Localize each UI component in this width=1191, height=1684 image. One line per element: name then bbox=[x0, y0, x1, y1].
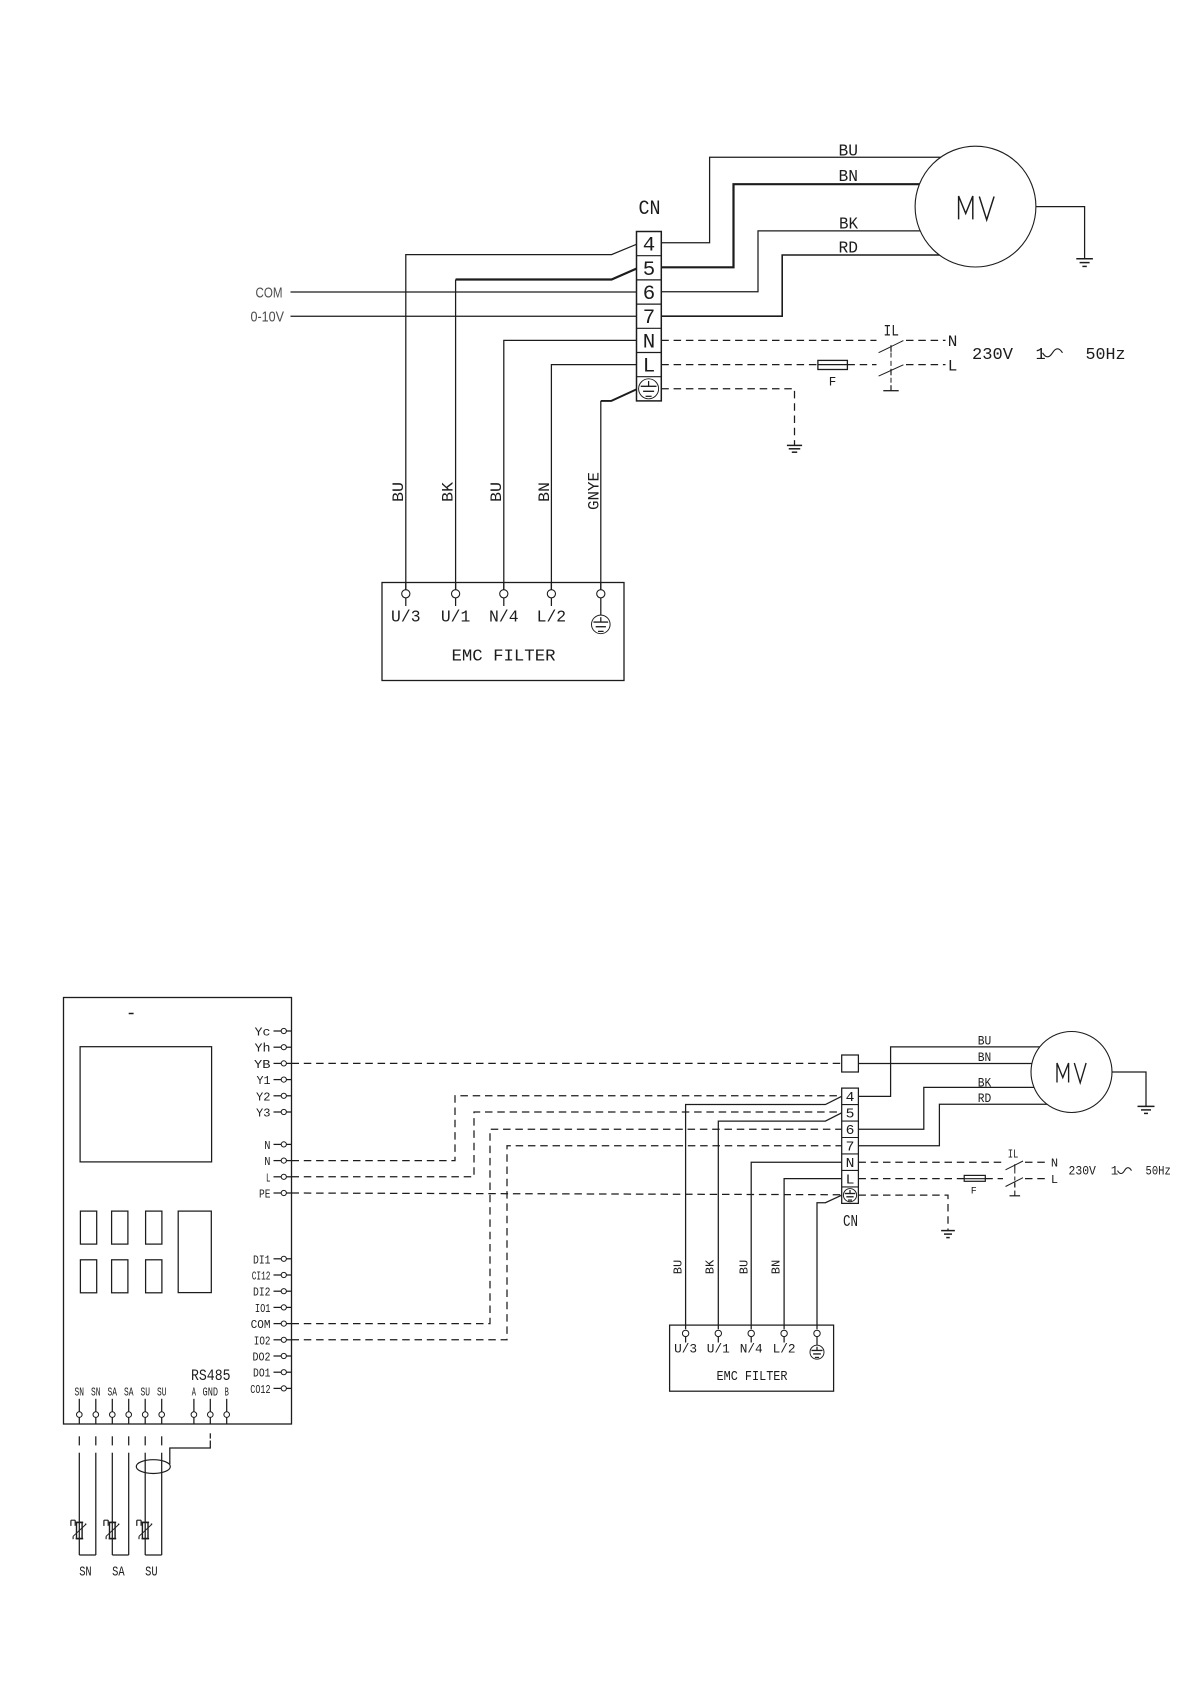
controller terminal CO12 stub+circle bbox=[274, 1386, 292, 1391]
svg-text:BU: BU bbox=[839, 143, 859, 162]
label IL (bottom) bbox=[1008, 1148, 1019, 1162]
svg-text:IL: IL bbox=[1008, 1148, 1019, 1162]
svg-text:BN: BN bbox=[770, 1260, 784, 1275]
controller terminal DO2 stub+circle bbox=[274, 1353, 292, 1358]
controller terminal Y1 label bbox=[257, 1074, 271, 1088]
svg-text:DO2: DO2 bbox=[253, 1351, 271, 1365]
connector CN (top) terminal block outline bbox=[637, 232, 662, 401]
controller terminal DO1 stub+circle bbox=[274, 1370, 292, 1375]
controller terminal YB stub+circle bbox=[274, 1061, 292, 1066]
pin 5 label (bottom CN) bbox=[846, 1107, 855, 1123]
controller terminal N label bbox=[264, 1155, 270, 1169]
svg-text:L: L bbox=[266, 1171, 271, 1185]
wire RS485 GND to cable shield bbox=[170, 1441, 211, 1465]
controller bottom terminal SN label bbox=[75, 1386, 85, 1400]
controller terminal CI12 label bbox=[252, 1270, 271, 1284]
controller button r2c3 bbox=[146, 1260, 162, 1293]
wire BN: CN pin 5 to motor (top) bbox=[661, 184, 930, 267]
controller button r1c1 bbox=[80, 1211, 96, 1244]
EMC terminal circle (top) bbox=[500, 590, 508, 598]
svg-text:230V: 230V bbox=[972, 346, 1014, 365]
wire: motor MV (top) to earth bbox=[1036, 207, 1085, 259]
connector CN (top) cell divider bbox=[637, 376, 662, 378]
EMC filter box (top) bbox=[382, 583, 624, 681]
controller terminal COM stub+circle bbox=[274, 1321, 292, 1326]
controller button r1c3 bbox=[146, 1211, 162, 1244]
connector CN (bottom) cell divider bbox=[842, 1137, 859, 1139]
wire PE dashed: CN to ground (bottom) bbox=[858, 1195, 948, 1230]
EMC terminal label U/3 (bottom) bbox=[674, 1342, 697, 1357]
controller terminal N stub+circle bbox=[274, 1142, 292, 1147]
svg-text:7: 7 bbox=[643, 307, 656, 330]
switch IL pole L blade (top) bbox=[879, 365, 904, 376]
svg-text:F: F bbox=[971, 1187, 977, 1198]
svg-text:DI2: DI2 bbox=[253, 1286, 271, 1300]
wire BK: CN pin 6 to motor (bottom) bbox=[858, 1087, 1050, 1129]
label F (top) bbox=[829, 376, 837, 390]
controller bottom terminal SU label bbox=[157, 1386, 167, 1400]
connector CN (top) cell divider bbox=[637, 279, 662, 281]
temperature sensor SU body bbox=[142, 1522, 150, 1538]
wire dashed YB to connector square bbox=[292, 1062, 842, 1064]
wire 0-10V to CN pin 7 (top) bbox=[291, 315, 637, 317]
wire BU: CN pin 4 to motor (top) bbox=[661, 157, 950, 242]
wire GNYE: EMC earth to CN PE (top) bbox=[601, 389, 637, 589]
svg-text:RS485: RS485 bbox=[191, 1367, 231, 1385]
svg-text:RD: RD bbox=[978, 1091, 992, 1106]
label BN (top) bbox=[839, 168, 859, 187]
svg-text:RD: RD bbox=[839, 240, 859, 259]
svg-text:DI1: DI1 bbox=[253, 1253, 271, 1267]
label IL (top) bbox=[884, 323, 900, 341]
controller button large bbox=[178, 1211, 211, 1293]
controller bottom terminal SA label bbox=[108, 1386, 118, 1400]
EMC terminal circle (bottom) bbox=[781, 1330, 787, 1336]
connector CN (bottom) cell divider bbox=[842, 1169, 859, 1171]
sensor SA right wire bbox=[128, 1453, 130, 1555]
EMC FILTER label (top) bbox=[452, 648, 556, 667]
switch IL pole L blade (bottom) bbox=[1006, 1178, 1024, 1187]
controller terminal DI2 label bbox=[253, 1286, 271, 1300]
svg-text:7: 7 bbox=[846, 1140, 855, 1156]
EMC terminal label U/3 (top) bbox=[391, 609, 421, 628]
sensor SA bottom join bbox=[112, 1554, 128, 1556]
wire BU: CN pin 4 to motor (bottom) bbox=[858, 1047, 1050, 1096]
svg-text:BN: BN bbox=[978, 1050, 992, 1065]
EMC terminal stub below U/3 (top) bbox=[405, 598, 407, 606]
label GNYE vertical (top) bbox=[586, 472, 604, 510]
connector CN (top) cell divider bbox=[637, 255, 662, 257]
svg-text:CN: CN bbox=[639, 198, 661, 221]
svg-text:Y1: Y1 bbox=[257, 1074, 271, 1088]
svg-text:L: L bbox=[643, 356, 656, 379]
connector CN (bottom) label bbox=[843, 1213, 858, 1232]
wire PE dashed: CN to ground (top) bbox=[661, 389, 794, 446]
wire RS485 GND dash bbox=[209, 1433, 211, 1438]
svg-text:N: N bbox=[1051, 1157, 1058, 1171]
label RD (bottom) bbox=[978, 1091, 992, 1106]
svg-text:BK: BK bbox=[978, 1075, 992, 1090]
EMC terminal stub below N/4 (top) bbox=[503, 598, 505, 606]
label 230V (bottom) bbox=[1069, 1165, 1097, 1179]
pin 7 label (bottom CN) bbox=[846, 1140, 855, 1156]
EMC earth stub (bottom) bbox=[816, 1337, 818, 1346]
label 50Hz (bottom) bbox=[1146, 1165, 1171, 1179]
svg-text:YB: YB bbox=[254, 1058, 271, 1072]
svg-text:BU: BU bbox=[390, 482, 408, 502]
temperature sensor SA theta mark bbox=[104, 1520, 108, 1526]
controller terminal CO12 label bbox=[250, 1383, 270, 1397]
sensor SA left wire bbox=[111, 1453, 113, 1555]
svg-text:N/4: N/4 bbox=[740, 1342, 763, 1357]
svg-text:6: 6 bbox=[846, 1123, 855, 1139]
cable shield ellipse around SU pair bbox=[136, 1460, 170, 1474]
EMC earth symbol (top) bbox=[592, 615, 611, 634]
label 0-10V (top) bbox=[251, 309, 285, 326]
svg-text:5: 5 bbox=[846, 1107, 855, 1123]
svg-text:N: N bbox=[948, 333, 958, 351]
label 50Hz (top) bbox=[1086, 346, 1126, 365]
switch IL pole L tick (bottom) bbox=[1014, 1182, 1016, 1187]
svg-text:A: A bbox=[192, 1386, 197, 1400]
sensor SN right wire bbox=[95, 1453, 97, 1555]
wire L dashed: switch to supply (top) bbox=[906, 364, 946, 366]
EMC terminal label U/1 (bottom) bbox=[707, 1342, 730, 1357]
controller bottom terminal stub+circle bbox=[126, 1399, 132, 1424]
svg-text:N: N bbox=[846, 1156, 855, 1172]
svg-text:BK: BK bbox=[440, 482, 458, 502]
label 1-phase (top) bbox=[1036, 346, 1063, 365]
svg-text:F: F bbox=[829, 376, 837, 390]
controller bottom terminal stub+circle bbox=[142, 1399, 148, 1424]
wire N dashed: switch to supply (top) bbox=[906, 339, 946, 341]
EMC FILTER label (bottom) bbox=[717, 1370, 788, 1385]
pin PE earth symbol (top CN) bbox=[639, 379, 659, 399]
svg-text:4: 4 bbox=[846, 1090, 855, 1106]
svg-text:SU: SU bbox=[140, 1386, 150, 1400]
pin 4 label (top CN) bbox=[643, 235, 656, 258]
ground symbol at motor MV (bottom) bbox=[1138, 1106, 1155, 1113]
pin 6 label (top CN) bbox=[643, 283, 656, 306]
svg-text:CN: CN bbox=[843, 1213, 858, 1232]
label L supply (bottom) bbox=[1051, 1173, 1058, 1187]
svg-text:U/1: U/1 bbox=[441, 609, 471, 628]
EMC terminal stub U/3 (bottom) bbox=[685, 1337, 687, 1343]
controller terminal DI1 label bbox=[253, 1253, 271, 1267]
svg-text:BU: BU bbox=[672, 1260, 686, 1275]
fuse F (top) bbox=[818, 360, 848, 369]
EMC terminal stub (top) bbox=[600, 583, 602, 590]
label BU vertical 2 (bottom) bbox=[738, 1260, 752, 1275]
svg-text:SU: SU bbox=[157, 1386, 167, 1400]
pin 6 label (bottom CN) bbox=[846, 1123, 855, 1139]
temperature sensor SU diagonal bbox=[139, 1524, 152, 1539]
motor MV (top) circle bbox=[915, 146, 1036, 267]
connector CN (top) label bbox=[639, 198, 661, 221]
controller terminal N label bbox=[264, 1139, 270, 1153]
controller terminal Yc label bbox=[255, 1026, 271, 1040]
svg-text:Yc: Yc bbox=[255, 1026, 271, 1040]
controller box bbox=[64, 998, 292, 1425]
svg-text:N: N bbox=[264, 1139, 270, 1153]
connector CN (top) cell divider bbox=[637, 327, 662, 329]
label BU vertical (bottom) bbox=[672, 1260, 686, 1275]
wire dashed COM to CN pin 6 (bottom) bbox=[292, 1129, 842, 1323]
sensor wire dash below controller bbox=[95, 1436, 97, 1445]
wire BN: EMC U/1 to CN pin 5 (top) bbox=[456, 269, 637, 590]
controller terminal DO2 label bbox=[253, 1351, 271, 1365]
label BU vertical (top) bbox=[390, 482, 408, 502]
svg-text:IO1: IO1 bbox=[255, 1302, 271, 1316]
switch IL pole N blade (top) bbox=[879, 341, 904, 353]
wire N dashed: CN to switch IL (bottom) bbox=[858, 1161, 1003, 1163]
controller terminal IO1 label bbox=[255, 1302, 271, 1316]
connector CN (bottom) cell divider bbox=[842, 1186, 859, 1188]
EMC terminal stub L/2 (bottom) bbox=[783, 1337, 785, 1343]
label sensor SN bbox=[79, 1565, 92, 1581]
wire dashed L to CN pin 5 (bottom) bbox=[292, 1112, 842, 1177]
ground symbol at motor MV (top) bbox=[1076, 259, 1093, 267]
wire L dashed: CN to fuse F (bottom) bbox=[858, 1178, 964, 1180]
svg-text:CO12: CO12 bbox=[250, 1383, 270, 1397]
svg-text:SU: SU bbox=[145, 1565, 158, 1581]
svg-text:Yh: Yh bbox=[255, 1042, 271, 1056]
svg-text:BU: BU bbox=[488, 482, 506, 502]
wire GNYE: EMC earth to CN PE (bottom) bbox=[817, 1195, 842, 1329]
svg-text:U/3: U/3 bbox=[391, 609, 421, 628]
wire BU: EMC U/3 to CN pin 4 (bottom) bbox=[686, 1096, 842, 1329]
wire dashed PE to CN earth (bottom) bbox=[292, 1193, 842, 1195]
switch IL linkage end bar (top) bbox=[883, 385, 898, 391]
wire BK: CN pin 6 to motor (top) bbox=[661, 231, 930, 292]
sensor wire dash below controller bbox=[161, 1436, 163, 1445]
label BN vertical (bottom) bbox=[770, 1260, 784, 1275]
controller terminal L label bbox=[266, 1171, 271, 1185]
label N supply (bottom) bbox=[1051, 1157, 1058, 1171]
svg-text:N: N bbox=[264, 1155, 270, 1169]
controller bottom terminal SN label bbox=[91, 1386, 101, 1400]
label L supply (top) bbox=[948, 357, 958, 375]
sensor wire dash below controller bbox=[128, 1436, 130, 1445]
controller bottom terminal stub+circle bbox=[110, 1399, 116, 1424]
controller display bbox=[80, 1047, 212, 1162]
controller bottom terminal SU label bbox=[140, 1386, 150, 1400]
temperature sensor SA body bbox=[109, 1522, 117, 1538]
controller bottom terminal stub+circle bbox=[159, 1399, 165, 1424]
svg-text:DO1: DO1 bbox=[253, 1367, 271, 1381]
EMC terminal circle (top) bbox=[452, 590, 460, 598]
EMC filter box (bottom) bbox=[670, 1325, 834, 1391]
EMC terminal stub below U/1 (top) bbox=[455, 598, 457, 606]
controller terminal PE stub+circle bbox=[274, 1190, 292, 1195]
controller terminal IO1 stub+circle bbox=[274, 1305, 292, 1310]
temperature sensor SN diagonal bbox=[73, 1524, 86, 1539]
RS485 terminal B label bbox=[225, 1386, 229, 1400]
svg-text:L: L bbox=[948, 357, 958, 375]
svg-text:Y3: Y3 bbox=[256, 1107, 271, 1121]
pin N label (top CN) bbox=[643, 331, 656, 354]
EMC terminal label L/2 (bottom) bbox=[773, 1342, 796, 1357]
EMC terminal label N/4 (top) bbox=[489, 609, 519, 628]
svg-text:SA: SA bbox=[112, 1565, 125, 1581]
connector CN (bottom) cell divider bbox=[842, 1104, 859, 1106]
controller terminal Y3 label bbox=[256, 1107, 271, 1121]
ground symbol PE (bottom) bbox=[941, 1231, 955, 1238]
svg-text:SN: SN bbox=[79, 1565, 92, 1581]
controller bottom terminal stub+circle bbox=[93, 1399, 99, 1424]
controller terminal Y2 stub+circle bbox=[274, 1093, 292, 1098]
wire BU: EMC U/3 to CN pin 4 (top) bbox=[406, 244, 637, 589]
motor MV (top) label bbox=[959, 196, 995, 220]
controller bottom terminal stub+circle bbox=[191, 1399, 197, 1424]
svg-text:Y2: Y2 bbox=[256, 1090, 271, 1104]
controller terminal DO1 label bbox=[253, 1367, 271, 1381]
motor MV (bottom) circle bbox=[1031, 1032, 1112, 1113]
connector CN (bottom) terminal block outline bbox=[842, 1088, 859, 1203]
controller terminal N stub+circle bbox=[274, 1158, 292, 1163]
svg-text:B: B bbox=[225, 1386, 229, 1400]
EMC terminal label N/4 (bottom) bbox=[740, 1342, 763, 1357]
motor MV (bottom) label bbox=[1057, 1063, 1086, 1083]
label F (bottom) bbox=[971, 1187, 977, 1198]
svg-text:SN: SN bbox=[91, 1386, 101, 1400]
label BN vertical (top) bbox=[536, 482, 554, 502]
temperature sensor SA diagonal bbox=[106, 1524, 119, 1539]
svg-text:SN: SN bbox=[75, 1386, 85, 1400]
controller top mark bbox=[129, 1013, 134, 1015]
wire L dashed: fuse to switch (bottom) bbox=[985, 1178, 1003, 1180]
label BK vertical (bottom) bbox=[704, 1259, 718, 1274]
sensor SN bottom join bbox=[79, 1554, 96, 1556]
switch IL pole N tick (bottom) bbox=[1014, 1164, 1016, 1169]
pin PE earth symbol (bottom CN) bbox=[843, 1189, 856, 1202]
controller button r2c2 bbox=[112, 1260, 128, 1293]
wire: motor MV (bottom) to earth bbox=[1112, 1072, 1146, 1106]
EMC terminal stub N/4 (bottom) bbox=[750, 1337, 752, 1343]
switch IL pole L tick (top) bbox=[890, 369, 892, 376]
wire BU: EMC N/4 to CN pin N (top) bbox=[504, 340, 637, 589]
svg-text:GNYE: GNYE bbox=[586, 472, 604, 510]
sensor SU bottom join bbox=[145, 1554, 162, 1556]
connector CN (top) cell divider bbox=[637, 303, 662, 305]
label sensor SU bbox=[145, 1565, 158, 1581]
wire BN: EMC L/2 to CN pin L (top) bbox=[551, 365, 636, 590]
wire BN: square to motor (bottom) bbox=[858, 1063, 1041, 1065]
label RD (top) bbox=[839, 240, 859, 259]
svg-text:PE: PE bbox=[259, 1188, 271, 1202]
svg-text:SA: SA bbox=[108, 1386, 118, 1400]
label BU (bottom) bbox=[978, 1034, 992, 1049]
label 230V (top) bbox=[972, 346, 1014, 365]
connector CN (bottom) cell divider bbox=[842, 1153, 859, 1155]
switch IL pole N tick (top) bbox=[890, 345, 892, 352]
svg-text:CI12: CI12 bbox=[252, 1270, 271, 1284]
sensor SU left wire bbox=[144, 1453, 146, 1555]
EMC terminal circle (bottom) bbox=[715, 1330, 721, 1336]
switch IL linkage end bar (bottom) bbox=[1010, 1191, 1021, 1196]
wire dashed IO2 to CN pin 7 (bottom) bbox=[292, 1146, 842, 1340]
pin 5 label (top CN) bbox=[643, 259, 656, 282]
svg-text:BN: BN bbox=[839, 168, 859, 187]
label BK (bottom) bbox=[978, 1075, 992, 1090]
svg-text:BK: BK bbox=[704, 1259, 718, 1274]
controller bottom terminal stub+circle bbox=[208, 1399, 214, 1424]
temperature sensor SN body bbox=[76, 1522, 84, 1538]
wire RD: CN pin 7 to motor (top) bbox=[661, 255, 950, 316]
wire BK: EMC U/1 to CN pin 5 (bottom) bbox=[718, 1113, 841, 1329]
controller terminal Y1 stub+circle bbox=[274, 1077, 292, 1082]
svg-text:U/1: U/1 bbox=[707, 1342, 730, 1357]
sensor wire dash below controller bbox=[111, 1436, 113, 1445]
controller button r1c2 bbox=[112, 1211, 128, 1244]
EMC terminal stub (top) bbox=[455, 583, 457, 590]
controller terminal Yc stub+circle bbox=[274, 1028, 292, 1033]
controller terminal COM label bbox=[251, 1318, 271, 1332]
controller terminal YB label bbox=[254, 1058, 271, 1072]
switch IL linkage dashed (top) bbox=[890, 353, 892, 386]
EMC terminal label U/1 (top) bbox=[441, 609, 471, 628]
svg-text:50Hz: 50Hz bbox=[1146, 1165, 1171, 1179]
EMC terminal circle (bottom) bbox=[814, 1330, 820, 1336]
controller bottom terminal SA label bbox=[124, 1386, 134, 1400]
controller bottom terminal stub+circle bbox=[224, 1399, 230, 1424]
label 1-phase (bottom) bbox=[1111, 1165, 1132, 1179]
pin 7 label (top CN) bbox=[643, 307, 656, 330]
switch IL linkage dashed (bottom) bbox=[1014, 1170, 1016, 1191]
EMC terminal circle (top) bbox=[402, 590, 410, 598]
wire BN: EMC L/2 to CN pin L (bottom) bbox=[784, 1179, 842, 1330]
svg-text:IO2: IO2 bbox=[254, 1334, 271, 1348]
label BU (top) bbox=[839, 143, 859, 162]
EMC terminal stub below L/2 (top) bbox=[550, 598, 552, 606]
controller terminal DI2 stub+circle bbox=[274, 1289, 292, 1294]
svg-text:6: 6 bbox=[643, 283, 656, 306]
controller button r2c1 bbox=[80, 1260, 96, 1293]
svg-text:50Hz: 50Hz bbox=[1086, 346, 1126, 365]
EMC earth terminal stub (top) bbox=[600, 598, 602, 615]
svg-text:EMC FILTER: EMC FILTER bbox=[452, 648, 556, 667]
wire L dashed: CN to fuse F (top) bbox=[661, 364, 818, 366]
svg-text:BN: BN bbox=[536, 482, 554, 502]
svg-text:1: 1 bbox=[1111, 1165, 1119, 1179]
pin L label (bottom CN) bbox=[846, 1172, 855, 1188]
sensor SN left wire bbox=[78, 1453, 80, 1555]
sensor wire dash below controller bbox=[144, 1436, 146, 1445]
svg-text:4: 4 bbox=[643, 235, 656, 258]
label BU vertical 2 (top) bbox=[488, 482, 506, 502]
controller terminal L stub+circle bbox=[274, 1174, 292, 1179]
label COM (top) bbox=[256, 285, 283, 302]
EMC terminal stub (top) bbox=[405, 583, 407, 590]
svg-text:U/3: U/3 bbox=[674, 1342, 697, 1357]
label BK (top) bbox=[839, 216, 859, 235]
svg-text:GND: GND bbox=[203, 1386, 219, 1400]
controller terminal IO2 stub+circle bbox=[274, 1337, 292, 1342]
label sensor SA bbox=[112, 1565, 125, 1581]
EMC terminal stub (top) bbox=[550, 583, 552, 590]
svg-text:L: L bbox=[1051, 1173, 1058, 1187]
RS485 terminal A label bbox=[192, 1386, 197, 1400]
temperature sensor SN theta mark bbox=[71, 1520, 75, 1526]
label BK vertical (top) bbox=[440, 482, 458, 502]
wire RD: CN pin 7 to motor (bottom) bbox=[858, 1104, 1060, 1145]
EMC terminal stub U/1 (bottom) bbox=[717, 1337, 719, 1343]
svg-text:EMC FILTER: EMC FILTER bbox=[717, 1370, 788, 1385]
wire N dashed: switch to supply (bottom) bbox=[1025, 1161, 1049, 1163]
EMC terminal circle (bottom) bbox=[748, 1330, 754, 1336]
svg-text:0-10V: 0-10V bbox=[251, 309, 285, 326]
connector CN (bottom) cell divider bbox=[842, 1120, 859, 1122]
